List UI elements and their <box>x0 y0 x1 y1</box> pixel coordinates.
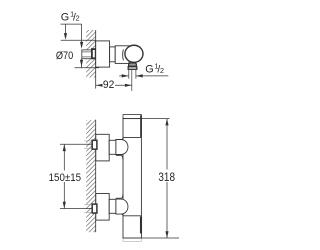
svg-text:G1/2: G1/2 <box>61 9 80 23</box>
svg-text:150±15: 150±15 <box>49 172 82 184</box>
svg-text:92: 92 <box>103 79 114 91</box>
svg-text:G1/2: G1/2 <box>145 61 164 75</box>
svg-text:318: 318 <box>158 172 175 184</box>
svg-text:Ø70: Ø70 <box>56 50 73 62</box>
